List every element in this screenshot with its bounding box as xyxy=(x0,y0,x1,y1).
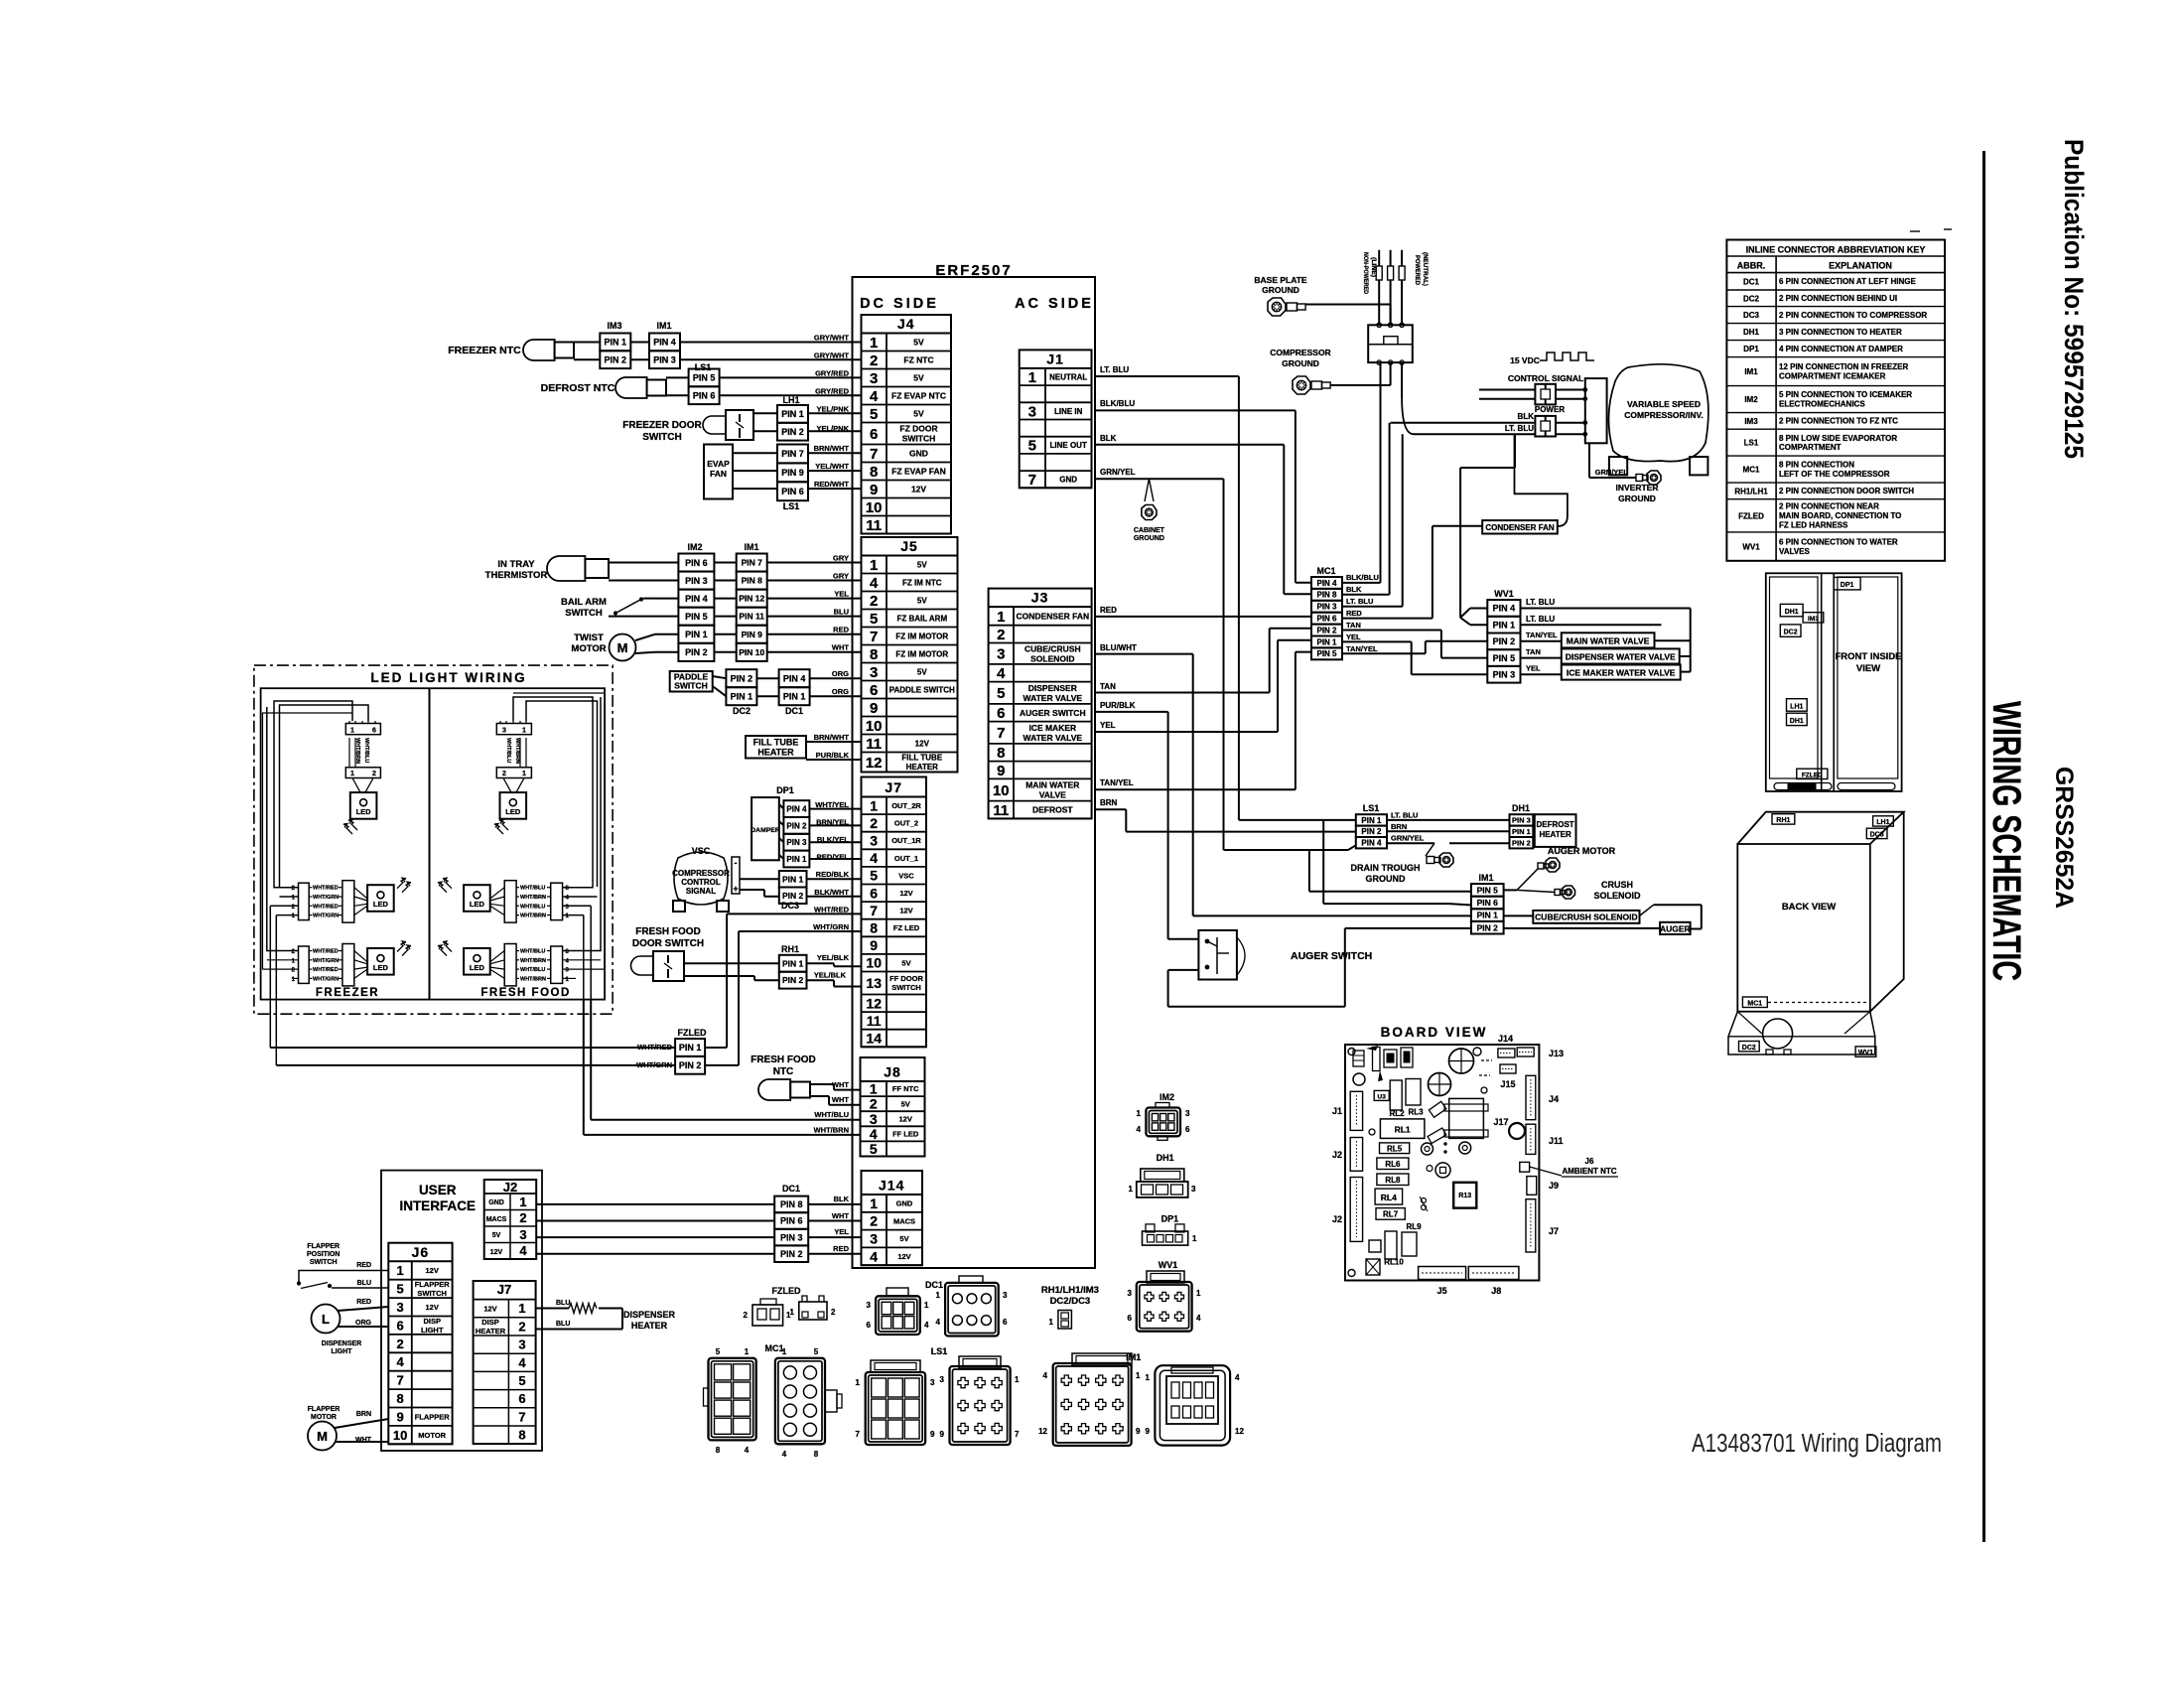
svg-text:FZLED: FZLED xyxy=(1802,773,1823,779)
svg-text:1: 1 xyxy=(522,727,526,734)
svg-text:LED: LED xyxy=(373,963,389,972)
svg-text:YEL/BLK: YEL/BLK xyxy=(817,953,850,962)
inline connector DP1 pins xyxy=(779,800,862,867)
svg-text:WV1: WV1 xyxy=(1494,589,1514,599)
svg-text:PIN 1: PIN 1 xyxy=(786,855,807,864)
svg-text:RH1/LH1/IM3: RH1/LH1/IM3 xyxy=(1041,1285,1099,1296)
svg-text:WHT/GRN: WHT/GRN xyxy=(313,976,339,982)
svg-text:12V: 12V xyxy=(899,907,912,915)
svg-text:6: 6 xyxy=(396,1318,403,1333)
svg-text:10: 10 xyxy=(866,499,883,516)
wire xyxy=(714,598,861,600)
connector drawing IM2 xyxy=(1137,1092,1190,1140)
wire led box to J8 xyxy=(584,1000,861,1135)
svg-text:PIN 1: PIN 1 xyxy=(782,958,804,968)
svg-text:GROUND: GROUND xyxy=(1618,493,1656,503)
svg-text:3: 3 xyxy=(930,1378,935,1387)
svg-text:WHT: WHT xyxy=(832,1095,849,1104)
svg-text:DISPENSER WATER VALVE: DISPENSER WATER VALVE xyxy=(1566,651,1676,661)
svg-text:PIN 2: PIN 2 xyxy=(731,673,753,683)
svg-text:ORG: ORG xyxy=(832,669,849,678)
inverter ground xyxy=(1589,443,1661,503)
svg-text:CONDENSER FAN: CONDENSER FAN xyxy=(1016,612,1089,622)
svg-text:9: 9 xyxy=(396,1409,403,1424)
svg-text:5V: 5V xyxy=(917,560,927,569)
svg-text:DH1: DH1 xyxy=(1785,609,1799,616)
connector drawing LS1 left xyxy=(856,1346,948,1445)
flapper position switch xyxy=(298,1243,389,1289)
svg-text:PIN 2: PIN 2 xyxy=(781,427,804,437)
svg-text:GRN/YEL: GRN/YEL xyxy=(1100,468,1136,477)
svg-text:RL5: RL5 xyxy=(1387,1145,1403,1154)
svg-text:2: 2 xyxy=(870,593,878,610)
svg-text:14: 14 xyxy=(866,1031,882,1047)
svg-text:WHT/BRN: WHT/BRN xyxy=(520,976,546,982)
svg-text:1: 1 xyxy=(1136,1371,1141,1380)
svg-text:8: 8 xyxy=(870,920,878,936)
svg-text:12: 12 xyxy=(866,755,883,772)
svg-text:11: 11 xyxy=(866,736,882,753)
svg-text:2: 2 xyxy=(519,1210,526,1225)
svg-text:PADDLE SWITCH: PADDLE SWITCH xyxy=(889,685,955,694)
svg-text:J5: J5 xyxy=(900,538,918,554)
svg-text:PIN 10: PIN 10 xyxy=(739,647,764,657)
svg-text:DEFROST: DEFROST xyxy=(1536,820,1573,829)
inline connector LH1 pins (fz door sw) xyxy=(777,395,862,441)
svg-text:OUT_1: OUT_1 xyxy=(894,854,918,863)
svg-text:J14: J14 xyxy=(879,1178,904,1194)
svg-text:LS1: LS1 xyxy=(1363,803,1380,813)
svg-text:1: 1 xyxy=(396,1263,403,1278)
svg-text:5: 5 xyxy=(1028,438,1036,455)
svg-text:FZ DOOR: FZ DOOR xyxy=(899,424,937,434)
svg-text:DP1: DP1 xyxy=(1161,1214,1179,1224)
compressor control signal VSC xyxy=(672,846,779,912)
svg-text:4: 4 xyxy=(870,388,879,405)
svg-text:10: 10 xyxy=(866,718,883,735)
svg-text:GRY/RED: GRY/RED xyxy=(815,386,849,395)
svg-text:WATER VALVE: WATER VALVE xyxy=(1024,733,1083,743)
svg-text:ORG: ORG xyxy=(832,687,849,696)
svg-text:PIN 4: PIN 4 xyxy=(1493,604,1516,614)
svg-text:6: 6 xyxy=(867,1321,872,1330)
svg-text:(NEUTRAL): (NEUTRAL) xyxy=(1422,252,1429,286)
svg-text:IM2: IM2 xyxy=(1744,395,1758,404)
svg-text:PIN 2: PIN 2 xyxy=(685,647,708,657)
compressor ground xyxy=(1270,348,1390,394)
svg-text:EXPLANATION: EXPLANATION xyxy=(1829,261,1892,271)
svg-text:RED: RED xyxy=(833,626,849,634)
svg-text:1: 1 xyxy=(870,335,878,352)
svg-text:9: 9 xyxy=(870,482,878,498)
wire MC1 pin4 to relay xyxy=(1342,362,1381,583)
svg-text:J11: J11 xyxy=(1549,1136,1564,1146)
svg-text:BLK: BLK xyxy=(834,1195,850,1203)
svg-text:PIN 5: PIN 5 xyxy=(1477,886,1499,896)
svg-text:PIN 1: PIN 1 xyxy=(1493,620,1516,630)
svg-text:J4: J4 xyxy=(897,316,915,332)
svg-text:MOTOR: MOTOR xyxy=(311,1414,337,1421)
wire MC1 pin8 to relay xyxy=(1342,423,1390,595)
svg-text:3: 3 xyxy=(1185,1109,1190,1118)
svg-text:VSC: VSC xyxy=(692,846,711,856)
inline connector DC1 pins (UI) xyxy=(774,1184,861,1262)
svg-text:WHT/RED: WHT/RED xyxy=(313,886,339,892)
svg-text:12V: 12V xyxy=(426,1303,439,1312)
svg-text:EVAP: EVAP xyxy=(707,459,730,469)
inline connector abbreviation key table xyxy=(1726,229,1952,561)
svg-text:6: 6 xyxy=(870,426,878,443)
svg-text:RL8: RL8 xyxy=(1385,1176,1401,1185)
inline connector DC3 pins xyxy=(779,871,862,911)
svg-text:WIRING SCHEMATIC: WIRING SCHEMATIC xyxy=(1984,701,2028,981)
wire to WV1 pins 4/1 xyxy=(1460,434,1515,625)
svg-text:TAN/YEL: TAN/YEL xyxy=(1100,778,1134,787)
svg-text:(LINE): (LINE) xyxy=(1370,257,1377,277)
wire xyxy=(714,633,861,635)
ff top led connector xyxy=(494,721,531,834)
svg-text:GND: GND xyxy=(896,1199,913,1208)
inline connector IM3 pins xyxy=(600,321,649,368)
svg-text:AUGER SWITCH: AUGER SWITCH xyxy=(1020,708,1086,718)
led light wiring box xyxy=(254,665,613,1014)
inline connector LS1 pins (defrost) xyxy=(1356,803,1425,848)
svg-text:1: 1 xyxy=(350,771,354,777)
drain trough ground xyxy=(1351,843,1454,884)
svg-text:1: 1 xyxy=(1129,1185,1134,1194)
svg-text:2: 2 xyxy=(502,771,506,777)
svg-text:4: 4 xyxy=(518,1355,526,1370)
fz mid led module xyxy=(292,878,411,922)
svg-text:FF DOOR: FF DOOR xyxy=(889,974,923,983)
svg-text:CONDENSER FAN: CONDENSER FAN xyxy=(1485,523,1555,532)
svg-text:MOTOR: MOTOR xyxy=(418,1431,446,1440)
svg-text:PIN 2: PIN 2 xyxy=(679,1060,702,1070)
svg-text:PIN 2: PIN 2 xyxy=(605,354,627,364)
svg-text:DEFROST NTC: DEFROST NTC xyxy=(541,382,615,394)
svg-text:CUBE/CRUSH SOLENOID: CUBE/CRUSH SOLENOID xyxy=(1535,913,1637,922)
svg-text:J1: J1 xyxy=(1046,351,1064,366)
svg-text:3: 3 xyxy=(870,370,878,387)
front inside view xyxy=(1766,573,1902,791)
svg-text:WHT/BLU: WHT/BLU xyxy=(363,738,369,763)
svg-text:8: 8 xyxy=(997,745,1005,762)
svg-text:IM3: IM3 xyxy=(607,321,621,331)
svg-text:USER: USER xyxy=(419,1183,457,1197)
svg-text:COMPRESSOR: COMPRESSOR xyxy=(672,869,730,878)
connector drawing IM1 right xyxy=(1146,1365,1245,1445)
svg-text:PIN 4: PIN 4 xyxy=(1316,579,1337,588)
svg-text:1: 1 xyxy=(1146,1373,1151,1382)
svg-text:PIN 2: PIN 2 xyxy=(782,891,804,901)
svg-text:COMPARTMENT: COMPARTMENT xyxy=(1779,443,1842,452)
svg-text:GRY/RED: GRY/RED xyxy=(815,368,849,377)
svg-text:4: 4 xyxy=(870,1126,878,1142)
inline connector RH1 pins xyxy=(779,944,862,989)
svg-text:PIN 4: PIN 4 xyxy=(783,673,806,683)
svg-text:LED: LED xyxy=(356,807,372,816)
svg-text:LS1: LS1 xyxy=(783,501,800,511)
svg-text:11: 11 xyxy=(866,517,882,534)
svg-text:PIN 3: PIN 3 xyxy=(1493,670,1516,680)
svg-text:WHT/BRN: WHT/BRN xyxy=(520,914,546,919)
wire J1 line-out BLK xyxy=(1095,434,1311,594)
svg-text:RED: RED xyxy=(356,1262,371,1269)
svg-text:WHT/RED: WHT/RED xyxy=(313,967,339,973)
svg-text:PIN 1: PIN 1 xyxy=(782,874,804,884)
svg-text:2: 2 xyxy=(518,1319,525,1334)
svg-text:GROUND: GROUND xyxy=(1366,874,1406,884)
svg-text:FZ LED HARNESS: FZ LED HARNESS xyxy=(1779,521,1848,530)
svg-text:MACS: MACS xyxy=(893,1216,915,1225)
svg-text:COMPRESSOR/INV.: COMPRESSOR/INV. xyxy=(1624,410,1704,420)
svg-text:VALVE: VALVE xyxy=(1039,790,1066,800)
wire J3 defrost BRN xyxy=(1095,798,1356,832)
svg-text:PIN 2: PIN 2 xyxy=(1512,838,1531,847)
svg-text:1: 1 xyxy=(350,727,354,734)
svg-text:FAN: FAN xyxy=(710,469,727,479)
wire J1 line-in BLK/BLU xyxy=(1095,399,1311,583)
svg-text:SWITCH: SWITCH xyxy=(674,681,708,691)
wire J3 cube/crush BLU/WHT xyxy=(1095,643,1471,915)
control signal connector xyxy=(1535,384,1586,405)
svg-text:LS1: LS1 xyxy=(695,362,712,372)
svg-text:PIN 1: PIN 1 xyxy=(679,1043,702,1053)
svg-text:5: 5 xyxy=(716,1347,721,1356)
svg-text:12V: 12V xyxy=(897,1252,910,1261)
svg-text:6: 6 xyxy=(1128,1314,1133,1323)
inverter rectangle xyxy=(1585,378,1607,443)
svg-text:GND: GND xyxy=(488,1199,504,1206)
svg-text:WHT/BLU: WHT/BLU xyxy=(520,886,545,892)
auger motor xyxy=(1504,846,1616,890)
svg-text:IM1: IM1 xyxy=(744,542,758,552)
inline connector IM2 pins xyxy=(678,542,714,661)
wire led to fzled pins xyxy=(270,1048,675,1065)
wire J3 dispenser valve TAN xyxy=(1095,629,1311,693)
svg-text:PIN 3: PIN 3 xyxy=(780,1232,803,1242)
svg-text:1: 1 xyxy=(1015,1375,1020,1384)
connector drawing DH1 xyxy=(1129,1153,1196,1197)
inline connector DC2 pins xyxy=(726,669,778,716)
fresh food NTC thermistor xyxy=(751,1055,860,1135)
svg-text:FF LED: FF LED xyxy=(892,1130,919,1139)
svg-text:J17: J17 xyxy=(1493,1117,1508,1127)
wire labels into J4 xyxy=(814,334,850,490)
svg-text:4 PIN CONNECTION AT DAMPER: 4 PIN CONNECTION AT DAMPER xyxy=(1779,345,1903,353)
svg-text:J13: J13 xyxy=(1549,1049,1564,1058)
svg-text:DC1: DC1 xyxy=(1743,277,1760,286)
condenser fan box xyxy=(1482,434,1568,533)
user interface box xyxy=(381,1171,542,1451)
svg-text:GRSS2652A: GRSS2652A xyxy=(2050,767,2078,909)
svg-text:PIN 1: PIN 1 xyxy=(1477,911,1499,920)
svg-text:LT. BLU: LT. BLU xyxy=(1526,598,1555,607)
svg-text:5V: 5V xyxy=(913,338,924,348)
svg-text:PIN 8: PIN 8 xyxy=(1316,591,1337,600)
svg-text:J8: J8 xyxy=(884,1064,901,1080)
svg-text:4: 4 xyxy=(782,1450,787,1459)
svg-text:2 PIN CONNECTION NEAR: 2 PIN CONNECTION NEAR xyxy=(1779,502,1879,511)
svg-text:PIN 2: PIN 2 xyxy=(1477,922,1499,932)
svg-text:12: 12 xyxy=(1038,1427,1047,1436)
svg-text:12V: 12V xyxy=(426,1266,439,1275)
svg-text:WHT/GRN: WHT/GRN xyxy=(813,922,849,931)
svg-text:WHT: WHT xyxy=(832,1080,849,1089)
svg-text:FF NTC: FF NTC xyxy=(892,1084,919,1093)
svg-text:DAMPER: DAMPER xyxy=(751,827,780,834)
svg-text:RL3: RL3 xyxy=(1408,1108,1424,1117)
svg-text:WHT/BLU: WHT/BLU xyxy=(814,1110,849,1119)
svg-text:PIN 1: PIN 1 xyxy=(731,691,753,701)
svg-text:+: + xyxy=(733,884,738,894)
svg-text:5V: 5V xyxy=(917,667,927,676)
svg-text:2: 2 xyxy=(870,352,878,369)
separator rule xyxy=(1982,151,1985,1542)
svg-text:MAIN WATER VALVE: MAIN WATER VALVE xyxy=(1567,635,1650,645)
svg-text:VIEW: VIEW xyxy=(1856,663,1880,674)
svg-text:MC1: MC1 xyxy=(1747,1000,1762,1007)
base plate ground xyxy=(1254,275,1390,325)
wiring schematic title xyxy=(1984,701,2028,981)
wire J1 neutral LT.BLU xyxy=(1095,365,1356,820)
svg-text:MAIN WATER: MAIN WATER xyxy=(1025,780,1079,790)
svg-text:2: 2 xyxy=(372,771,376,777)
svg-text:DEFROST: DEFROST xyxy=(1032,805,1073,815)
svg-text:2: 2 xyxy=(870,815,878,831)
inline connector DH1 pins (defrost) xyxy=(1387,803,1533,848)
svg-text:PIN 6: PIN 6 xyxy=(1477,898,1499,908)
connector J14 table xyxy=(862,1171,923,1265)
svg-text:12: 12 xyxy=(866,995,882,1011)
svg-text:4: 4 xyxy=(396,1354,404,1369)
connector J5 table xyxy=(862,537,958,773)
wire xyxy=(714,616,861,618)
svg-text:12V: 12V xyxy=(911,485,926,494)
evap fan box xyxy=(704,445,777,499)
svg-text:LED: LED xyxy=(373,900,389,909)
svg-text:FZLED: FZLED xyxy=(772,1286,801,1296)
svg-text:1: 1 xyxy=(870,557,878,574)
svg-text:ERF2507: ERF2507 xyxy=(935,262,1012,279)
svg-text:DP1: DP1 xyxy=(1743,345,1759,353)
svg-text:PIN 2: PIN 2 xyxy=(780,1249,803,1259)
svg-text:GROUND: GROUND xyxy=(1134,535,1164,542)
svg-text:5V: 5V xyxy=(901,958,910,967)
svg-text:BASE PLATE: BASE PLATE xyxy=(1254,275,1307,285)
svg-text:WV1: WV1 xyxy=(1159,1260,1178,1270)
ff low led module xyxy=(438,941,570,986)
svg-text:FRONT INSIDE: FRONT INSIDE xyxy=(1835,651,1901,662)
svg-text:PUR/BLK: PUR/BLK xyxy=(1100,701,1136,710)
svg-text:4: 4 xyxy=(1043,1371,1048,1380)
svg-text:SOLENOID: SOLENOID xyxy=(1030,653,1074,663)
svg-text:7: 7 xyxy=(870,903,878,918)
svg-text:BRN: BRN xyxy=(1391,822,1407,831)
svg-text:BLK/BLU: BLK/BLU xyxy=(1100,399,1135,408)
connector J7 (UI) table xyxy=(474,1281,536,1445)
ff mid led module xyxy=(438,878,570,922)
svg-text:FLAPPER: FLAPPER xyxy=(415,1280,451,1289)
svg-text:7: 7 xyxy=(856,1430,861,1439)
svg-text:AC SIDE: AC SIDE xyxy=(1015,296,1094,312)
svg-text:PIN 8: PIN 8 xyxy=(780,1199,803,1209)
svg-text:J5: J5 xyxy=(1437,1286,1447,1296)
main board ERF2507 outline xyxy=(853,262,1096,1268)
svg-text:CABINET: CABINET xyxy=(1134,527,1165,534)
fz top led connector xyxy=(343,721,380,834)
svg-text:HEATER: HEATER xyxy=(757,748,794,758)
svg-text:RH1: RH1 xyxy=(781,944,799,954)
svg-text:TWIST: TWIST xyxy=(574,633,604,643)
svg-text:2: 2 xyxy=(744,1311,749,1320)
svg-text:3: 3 xyxy=(867,1301,872,1310)
svg-text:ORG: ORG xyxy=(355,1320,372,1327)
svg-text:HEATER: HEATER xyxy=(476,1327,506,1336)
svg-text:J2: J2 xyxy=(503,1180,517,1195)
svg-text:J1: J1 xyxy=(1332,1106,1342,1116)
svg-text:4: 4 xyxy=(870,850,878,866)
svg-text:NEUTRAL: NEUTRAL xyxy=(1049,372,1087,381)
svg-text:PIN 1: PIN 1 xyxy=(783,691,806,701)
svg-text:RL9: RL9 xyxy=(1406,1222,1422,1231)
svg-text:4: 4 xyxy=(924,1321,929,1330)
svg-text:MC1: MC1 xyxy=(764,1343,783,1353)
svg-text:RED/BLK: RED/BLK xyxy=(816,870,850,879)
svg-text:5V: 5V xyxy=(917,596,927,605)
svg-text:5: 5 xyxy=(870,611,878,628)
svg-text:PIN 7: PIN 7 xyxy=(781,449,804,459)
freezer door switch xyxy=(622,410,777,443)
svg-text:FRESH FOOD: FRESH FOOD xyxy=(480,987,570,999)
power connector xyxy=(1535,405,1587,437)
svg-text:BLK: BLK xyxy=(1100,434,1117,443)
svg-text:7: 7 xyxy=(997,725,1005,742)
svg-text:8 PIN CONNECTION: 8 PIN CONNECTION xyxy=(1779,461,1854,470)
svg-text:DC3: DC3 xyxy=(1870,832,1884,839)
svg-text:4: 4 xyxy=(1235,1373,1240,1382)
svg-text:DP1: DP1 xyxy=(1841,582,1854,589)
svg-text:PIN 1: PIN 1 xyxy=(685,630,708,639)
svg-text:1: 1 xyxy=(870,797,878,813)
svg-text:DISPENSER: DISPENSER xyxy=(623,1310,676,1320)
svg-text:VALVES: VALVES xyxy=(1779,547,1810,556)
svg-text:1: 1 xyxy=(518,1301,525,1316)
connector drawing WV1 xyxy=(1128,1260,1201,1332)
svg-text:YEL/WHT: YEL/WHT xyxy=(815,462,849,471)
svg-text:9: 9 xyxy=(930,1430,935,1439)
svg-text:AMBIENT NTC: AMBIENT NTC xyxy=(1562,1167,1616,1176)
svg-text:M: M xyxy=(617,640,628,655)
svg-text:1: 1 xyxy=(519,1195,526,1209)
dispenser heater xyxy=(536,1300,676,1331)
svg-text:CUBE/CRUSH: CUBE/CRUSH xyxy=(1024,643,1081,653)
connector drawing IM1 left xyxy=(1038,1352,1141,1446)
svg-text:DC3: DC3 xyxy=(781,901,799,911)
svg-text:2 PIN CONNECTION TO COMPRESSOR: 2 PIN CONNECTION TO COMPRESSOR xyxy=(1779,311,1927,320)
svg-text:12V: 12V xyxy=(483,1305,496,1314)
dispenser water valve box xyxy=(1521,647,1680,664)
svg-text:RH1/LH1: RH1/LH1 xyxy=(1734,487,1768,495)
svg-text:LT. BLU: LT. BLU xyxy=(1505,424,1534,433)
fz low led module xyxy=(292,941,411,986)
svg-text:6: 6 xyxy=(518,1391,525,1406)
wire J3 auger switch PUR/BLK xyxy=(1095,701,1198,939)
connector J6 table xyxy=(388,1243,452,1445)
svg-text:GRN/YEL: GRN/YEL xyxy=(1391,834,1425,843)
svg-text:PIN 5: PIN 5 xyxy=(1316,649,1337,658)
svg-text:RED: RED xyxy=(1100,606,1117,615)
